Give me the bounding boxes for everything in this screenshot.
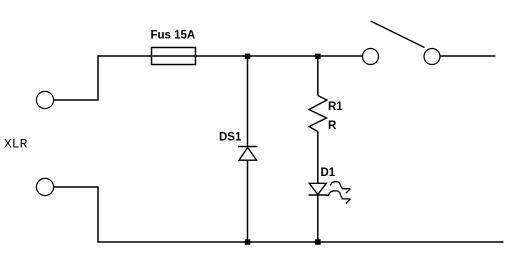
diode DS1 triangle: [239, 148, 257, 161]
wire R1 branch upper: [317, 56, 319, 96]
wire DS1 branch lower: [247, 161, 249, 243]
resistor R1 zigzag: [309, 96, 327, 132]
wire left vertical lower: [97, 187, 99, 242]
svg-text:Fus 15A: Fus 15A: [151, 30, 196, 42]
switch SW1 throw terminal: [424, 49, 440, 65]
wire DS1 branch upper: [247, 56, 249, 147]
wire bottom horizontal: [97, 241, 503, 243]
switch SW1 pole terminal: [363, 49, 379, 65]
connector XLR pin 1: [36, 91, 53, 108]
wire left vertical upper: [97, 55, 99, 100]
wire switch output: [440, 55, 496, 57]
LED D1 light arrow lower barb: [346, 199, 351, 204]
wire below D1: [317, 195, 319, 242]
svg-text:XLR: XLR: [4, 137, 28, 152]
LED D1 triangle: [309, 183, 326, 194]
wire XLR pin2 lead: [54, 186, 99, 188]
svg-text:R: R: [328, 120, 337, 132]
node junction top DS1: [245, 54, 251, 60]
wire between R1 and D1: [317, 132, 319, 184]
connector XLR pin 2: [36, 178, 53, 195]
svg-text:R1: R1: [328, 101, 343, 113]
node junction bottom R1: [315, 239, 321, 245]
diode DS1 cathode bar: [238, 146, 258, 148]
wire XLR pin1 lead: [54, 99, 99, 101]
LED D1 light arrow upper shaft: [330, 182, 350, 189]
fuse F1 body: [152, 48, 196, 65]
LED D1 light arrow lower shaft: [326, 191, 350, 199]
switch SW1 blade: [371, 21, 425, 48]
node junction bottom DS1: [245, 239, 251, 245]
LED D1 cathode bar: [309, 194, 328, 196]
svg-text:D1: D1: [321, 167, 336, 179]
LED D1 light arrow upper barb: [346, 189, 351, 194]
wire top horizontal from node to switch: [98, 55, 363, 57]
svg-text:DS1: DS1: [219, 132, 242, 144]
node junction top R1: [315, 54, 321, 60]
